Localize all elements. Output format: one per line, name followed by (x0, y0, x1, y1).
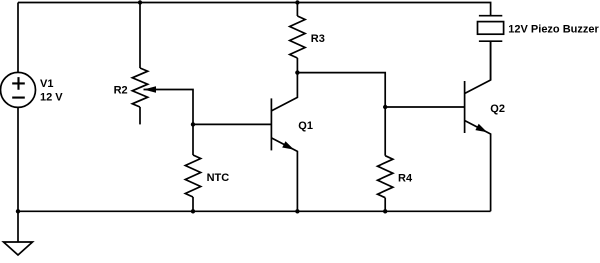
svg-text:NTC: NTC (207, 172, 230, 184)
svg-text:R2: R2 (114, 85, 128, 97)
svg-text:R3: R3 (311, 33, 325, 45)
svg-text:R4: R4 (398, 173, 413, 185)
svg-text:Q2: Q2 (490, 103, 505, 115)
svg-text:12 V: 12 V (40, 91, 63, 103)
svg-text:V1: V1 (40, 78, 53, 90)
svg-text:Q1: Q1 (298, 120, 313, 132)
svg-text:12V Piezo Buzzer: 12V Piezo Buzzer (508, 24, 599, 36)
